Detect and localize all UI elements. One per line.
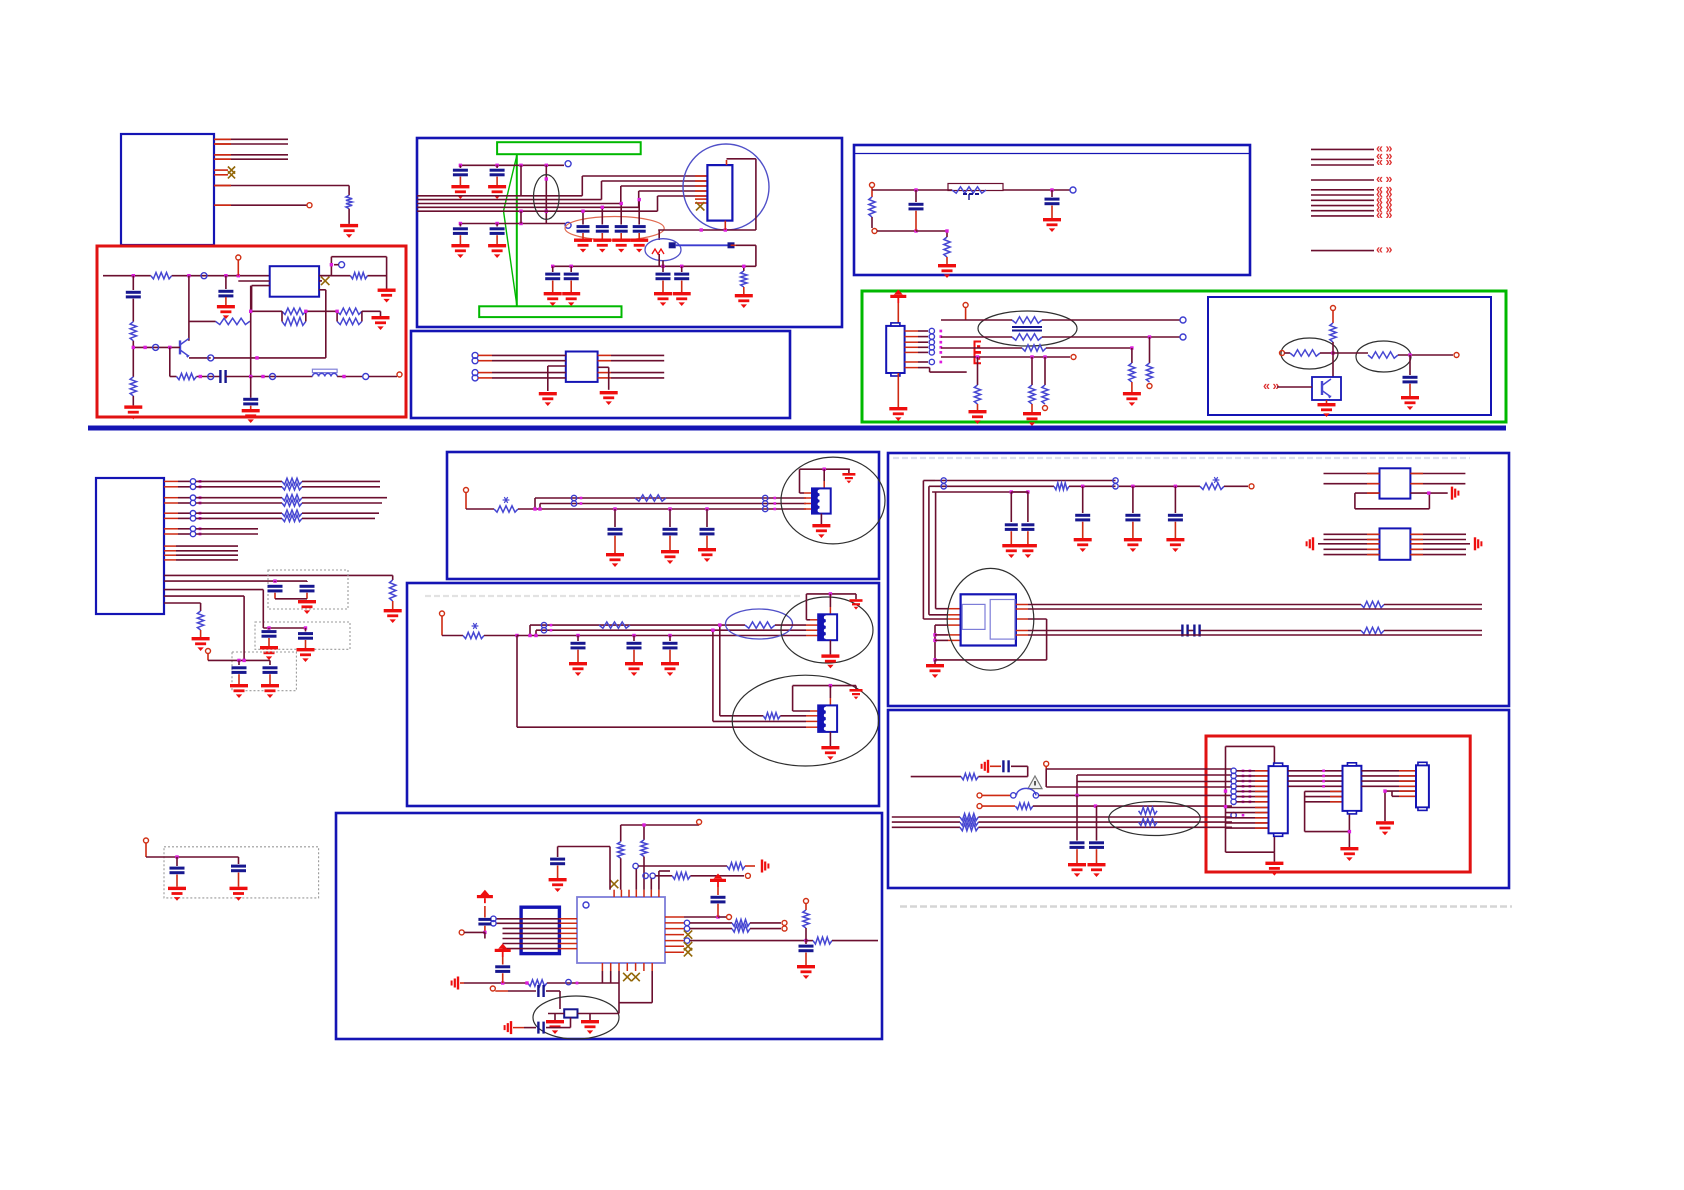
svg-text:« »: « » [1263,379,1279,393]
svg-text:« »: « » [1376,208,1392,222]
svg-text:« »: « » [1376,155,1392,169]
svg-text:« »: « » [1376,243,1392,257]
